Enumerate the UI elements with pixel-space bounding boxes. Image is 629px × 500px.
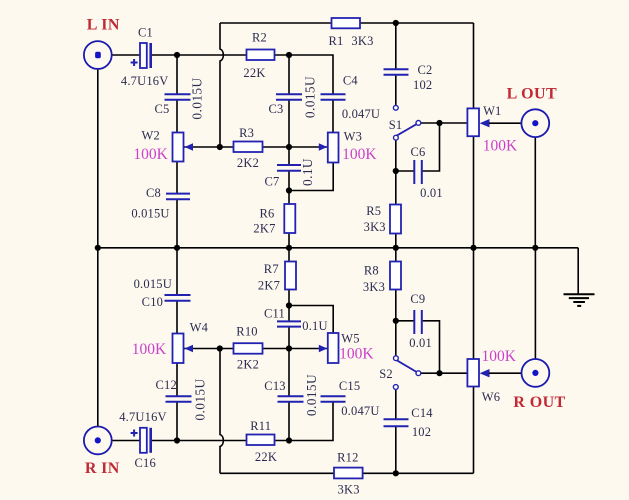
svg-text:S1: S1 [389, 118, 403, 132]
junction W4 wiper node [217, 345, 223, 351]
svg-text:22K: 22K [255, 450, 277, 464]
svg-text:C1: C1 [138, 26, 153, 40]
wire W1 vertical x=473.5 [473, 23, 475, 248]
svg-text:4.7U16V: 4.7U16V [119, 410, 167, 424]
junction C8 / ground bus [174, 245, 180, 251]
capacitor C15 [321, 396, 346, 401]
wire left chain x=177 [176, 55, 178, 441]
svg-text:C6: C6 [411, 145, 426, 159]
svg-text:C14: C14 [411, 406, 433, 420]
junction S2 / C9 left node [393, 318, 399, 324]
svg-text:R10: R10 [236, 325, 257, 339]
resistor R12 [334, 468, 363, 479]
svg-text:R6: R6 [260, 207, 275, 221]
resistor R7 [285, 262, 296, 290]
svg-text:100K: 100K [339, 346, 374, 363]
capacitor C7 [277, 165, 301, 171]
wire R OUT vertical [534, 248, 536, 360]
svg-text:S2: S2 [379, 367, 393, 381]
switch S1 [397, 124, 417, 136]
capacitor C14 [384, 419, 409, 426]
wire right chain x=395.8 [395, 23, 397, 473]
connector R IN [84, 427, 112, 455]
svg-text:3K3: 3K3 [363, 280, 385, 294]
potentiometer W2 [173, 133, 184, 162]
svg-text:102: 102 [413, 78, 432, 92]
svg-text:22K: 22K [243, 66, 265, 80]
junction W1-W6 / ground bus [470, 245, 476, 251]
wire ground bus y=247.8 [98, 247, 578, 249]
wire wiper row bottom y=348.5 [184, 348, 327, 350]
wire vertical x=220 upper with hop over y=55 [220, 23, 223, 147]
svg-text:0.1U: 0.1U [302, 319, 327, 333]
svg-text:102: 102 [412, 425, 431, 439]
ground symbol bar 4 [577, 305, 581, 307]
wire bottom rail y=473.3 [220, 472, 474, 474]
resistor R10 [234, 343, 263, 354]
potentiometer W3 [328, 133, 339, 163]
svg-text:C16: C16 [134, 456, 155, 470]
junction C2 / top rail [393, 20, 399, 26]
svg-text:3K3: 3K3 [364, 220, 386, 234]
svg-text:2K2: 2K2 [237, 358, 259, 372]
junction R3 right node [286, 144, 292, 150]
junction S1 / C6 right node [436, 120, 442, 126]
svg-text:0.015U: 0.015U [303, 76, 318, 118]
potentiometer W5 [328, 333, 339, 363]
svg-text:R1: R1 [329, 34, 344, 48]
svg-text:C2: C2 [418, 63, 433, 77]
connector R OUT [522, 359, 550, 387]
svg-text:C7: C7 [265, 175, 280, 189]
junction R6 / ground bus [286, 245, 292, 251]
svg-text:R12: R12 [337, 451, 358, 465]
svg-text:C12: C12 [155, 378, 176, 392]
svg-text:R8: R8 [364, 264, 379, 278]
connector L OUT [521, 109, 549, 137]
junction C11 / W5 top node [286, 302, 292, 308]
junction L OUT / ground bus [532, 245, 538, 251]
svg-text:W1: W1 [483, 104, 501, 118]
svg-text:0.015U: 0.015U [190, 77, 205, 119]
svg-text:100K: 100K [133, 146, 168, 163]
svg-text:W6: W6 [482, 390, 500, 404]
resistor R6 [284, 204, 295, 233]
junction C1 output node [174, 52, 180, 58]
svg-text:100K: 100K [481, 348, 516, 365]
wire input row y=55 [111, 55, 333, 94]
svg-text:C4: C4 [343, 74, 359, 88]
svg-text:C15: C15 [339, 379, 360, 393]
resistor R2 [247, 50, 275, 61]
resistor R3 [234, 142, 263, 153]
wire left rail x=97.8 [97, 69, 99, 427]
svg-text:W5: W5 [341, 331, 359, 345]
svg-text:C13: C13 [264, 379, 285, 393]
capacitor C3 [276, 94, 302, 99]
capacitor C6 [414, 160, 422, 184]
resistor R5 [390, 205, 401, 234]
svg-text:W2: W2 [141, 129, 159, 143]
junction R10 right node [286, 345, 292, 351]
svg-text:C10: C10 [142, 295, 163, 309]
wire top rail y=23 [220, 22, 474, 24]
resistor R1 [332, 18, 361, 28]
svg-text:100K: 100K [483, 137, 518, 154]
wire C9 branch [396, 321, 468, 373]
svg-text:C11: C11 [264, 307, 285, 321]
wire wiper row top y=147 [184, 146, 327, 148]
junction S1 / C6 left node [393, 168, 399, 174]
svg-text:3K3: 3K3 [338, 483, 360, 497]
svg-text:0.1U: 0.1U [300, 158, 315, 186]
svg-text:C9: C9 [410, 292, 425, 306]
capacitor C5 [165, 94, 191, 99]
switch S2 [397, 360, 417, 372]
svg-text:0.047U: 0.047U [342, 107, 380, 121]
svg-text:2K2: 2K2 [237, 156, 259, 170]
svg-text:W4: W4 [190, 321, 209, 335]
svg-text:100K: 100K [132, 341, 167, 358]
svg-text:0.015U: 0.015U [304, 374, 319, 416]
svg-text:2K7: 2K7 [258, 278, 280, 292]
wire vertical x=220 lower with hop over y=440.5 [220, 349, 223, 474]
potentiometer W4 [173, 334, 184, 364]
wire output row bottom y=440.5 [111, 402, 333, 441]
junction R5-R8 / ground bus [393, 245, 399, 251]
junction C16 output node [174, 437, 180, 443]
svg-text:C8: C8 [146, 186, 161, 200]
connector L IN [84, 41, 112, 69]
capacitor C4 [321, 94, 346, 99]
junction R11 right node [286, 437, 292, 443]
svg-text:R OUT: R OUT [513, 394, 565, 411]
capacitor C2 [384, 69, 409, 75]
resistor R11 [247, 435, 275, 446]
svg-text:R5: R5 [366, 204, 381, 218]
wire C6 branch [396, 123, 468, 171]
svg-text:R11: R11 [250, 419, 271, 433]
svg-text:R7: R7 [264, 262, 279, 276]
junction R2 right node [286, 52, 292, 58]
svg-text:0.01: 0.01 [409, 336, 432, 350]
wire C4 to W3 [332, 100, 334, 133]
svg-text:R2: R2 [252, 31, 267, 45]
capacitor C13 [278, 396, 304, 401]
ground symbol bar 3 [573, 301, 585, 303]
junction W2 wiper node [217, 144, 223, 150]
junction C7 / W3 bottom node [286, 187, 292, 193]
wire W3 bottom to node [289, 163, 333, 191]
ground symbol bar 1 [564, 293, 595, 295]
svg-text:0.015U: 0.015U [131, 207, 169, 221]
junction S2 / C9 right node [436, 370, 442, 376]
svg-text:0.015U: 0.015U [193, 378, 208, 420]
capacitor C12 [166, 396, 192, 401]
svg-text:C3: C3 [269, 102, 284, 116]
wire L OUT vertical [534, 137, 536, 248]
svg-text:R IN: R IN [85, 460, 120, 477]
wire W6 vertical x=473.5 [473, 248, 475, 473]
capacitor C10 [165, 295, 191, 301]
junction left rail / ground bus [95, 245, 101, 251]
svg-text:100K: 100K [342, 146, 377, 163]
wire mid chain x=289 [288, 55, 290, 441]
svg-text:0.047U: 0.047U [341, 404, 379, 418]
svg-text:R3: R3 [239, 126, 254, 140]
svg-text:W3: W3 [344, 130, 362, 144]
capacitor C16 [140, 428, 147, 453]
svg-text:L OUT: L OUT [507, 85, 557, 102]
capacitor C11 [277, 321, 301, 326]
capacitor C1 [140, 43, 147, 68]
svg-text:3K3: 3K3 [351, 34, 373, 48]
svg-text:C5: C5 [155, 102, 170, 116]
junction C14 / bottom rail [393, 470, 399, 476]
capacitor C8 [166, 194, 190, 200]
potentiometer W6 [467, 359, 479, 387]
svg-text:L IN: L IN [87, 17, 120, 34]
resistor R8 [390, 262, 401, 290]
svg-text:0.015U: 0.015U [134, 277, 172, 291]
svg-text:2K7: 2K7 [253, 222, 275, 236]
potentiometer W1 [467, 108, 479, 136]
wire ground drop [577, 248, 579, 294]
capacitor C9 [414, 310, 422, 334]
svg-text:0.01: 0.01 [420, 186, 443, 200]
ground symbol bar 2 [569, 297, 589, 299]
svg-text:4.7U16V: 4.7U16V [121, 74, 169, 88]
wire W5 top to node [289, 306, 333, 334]
